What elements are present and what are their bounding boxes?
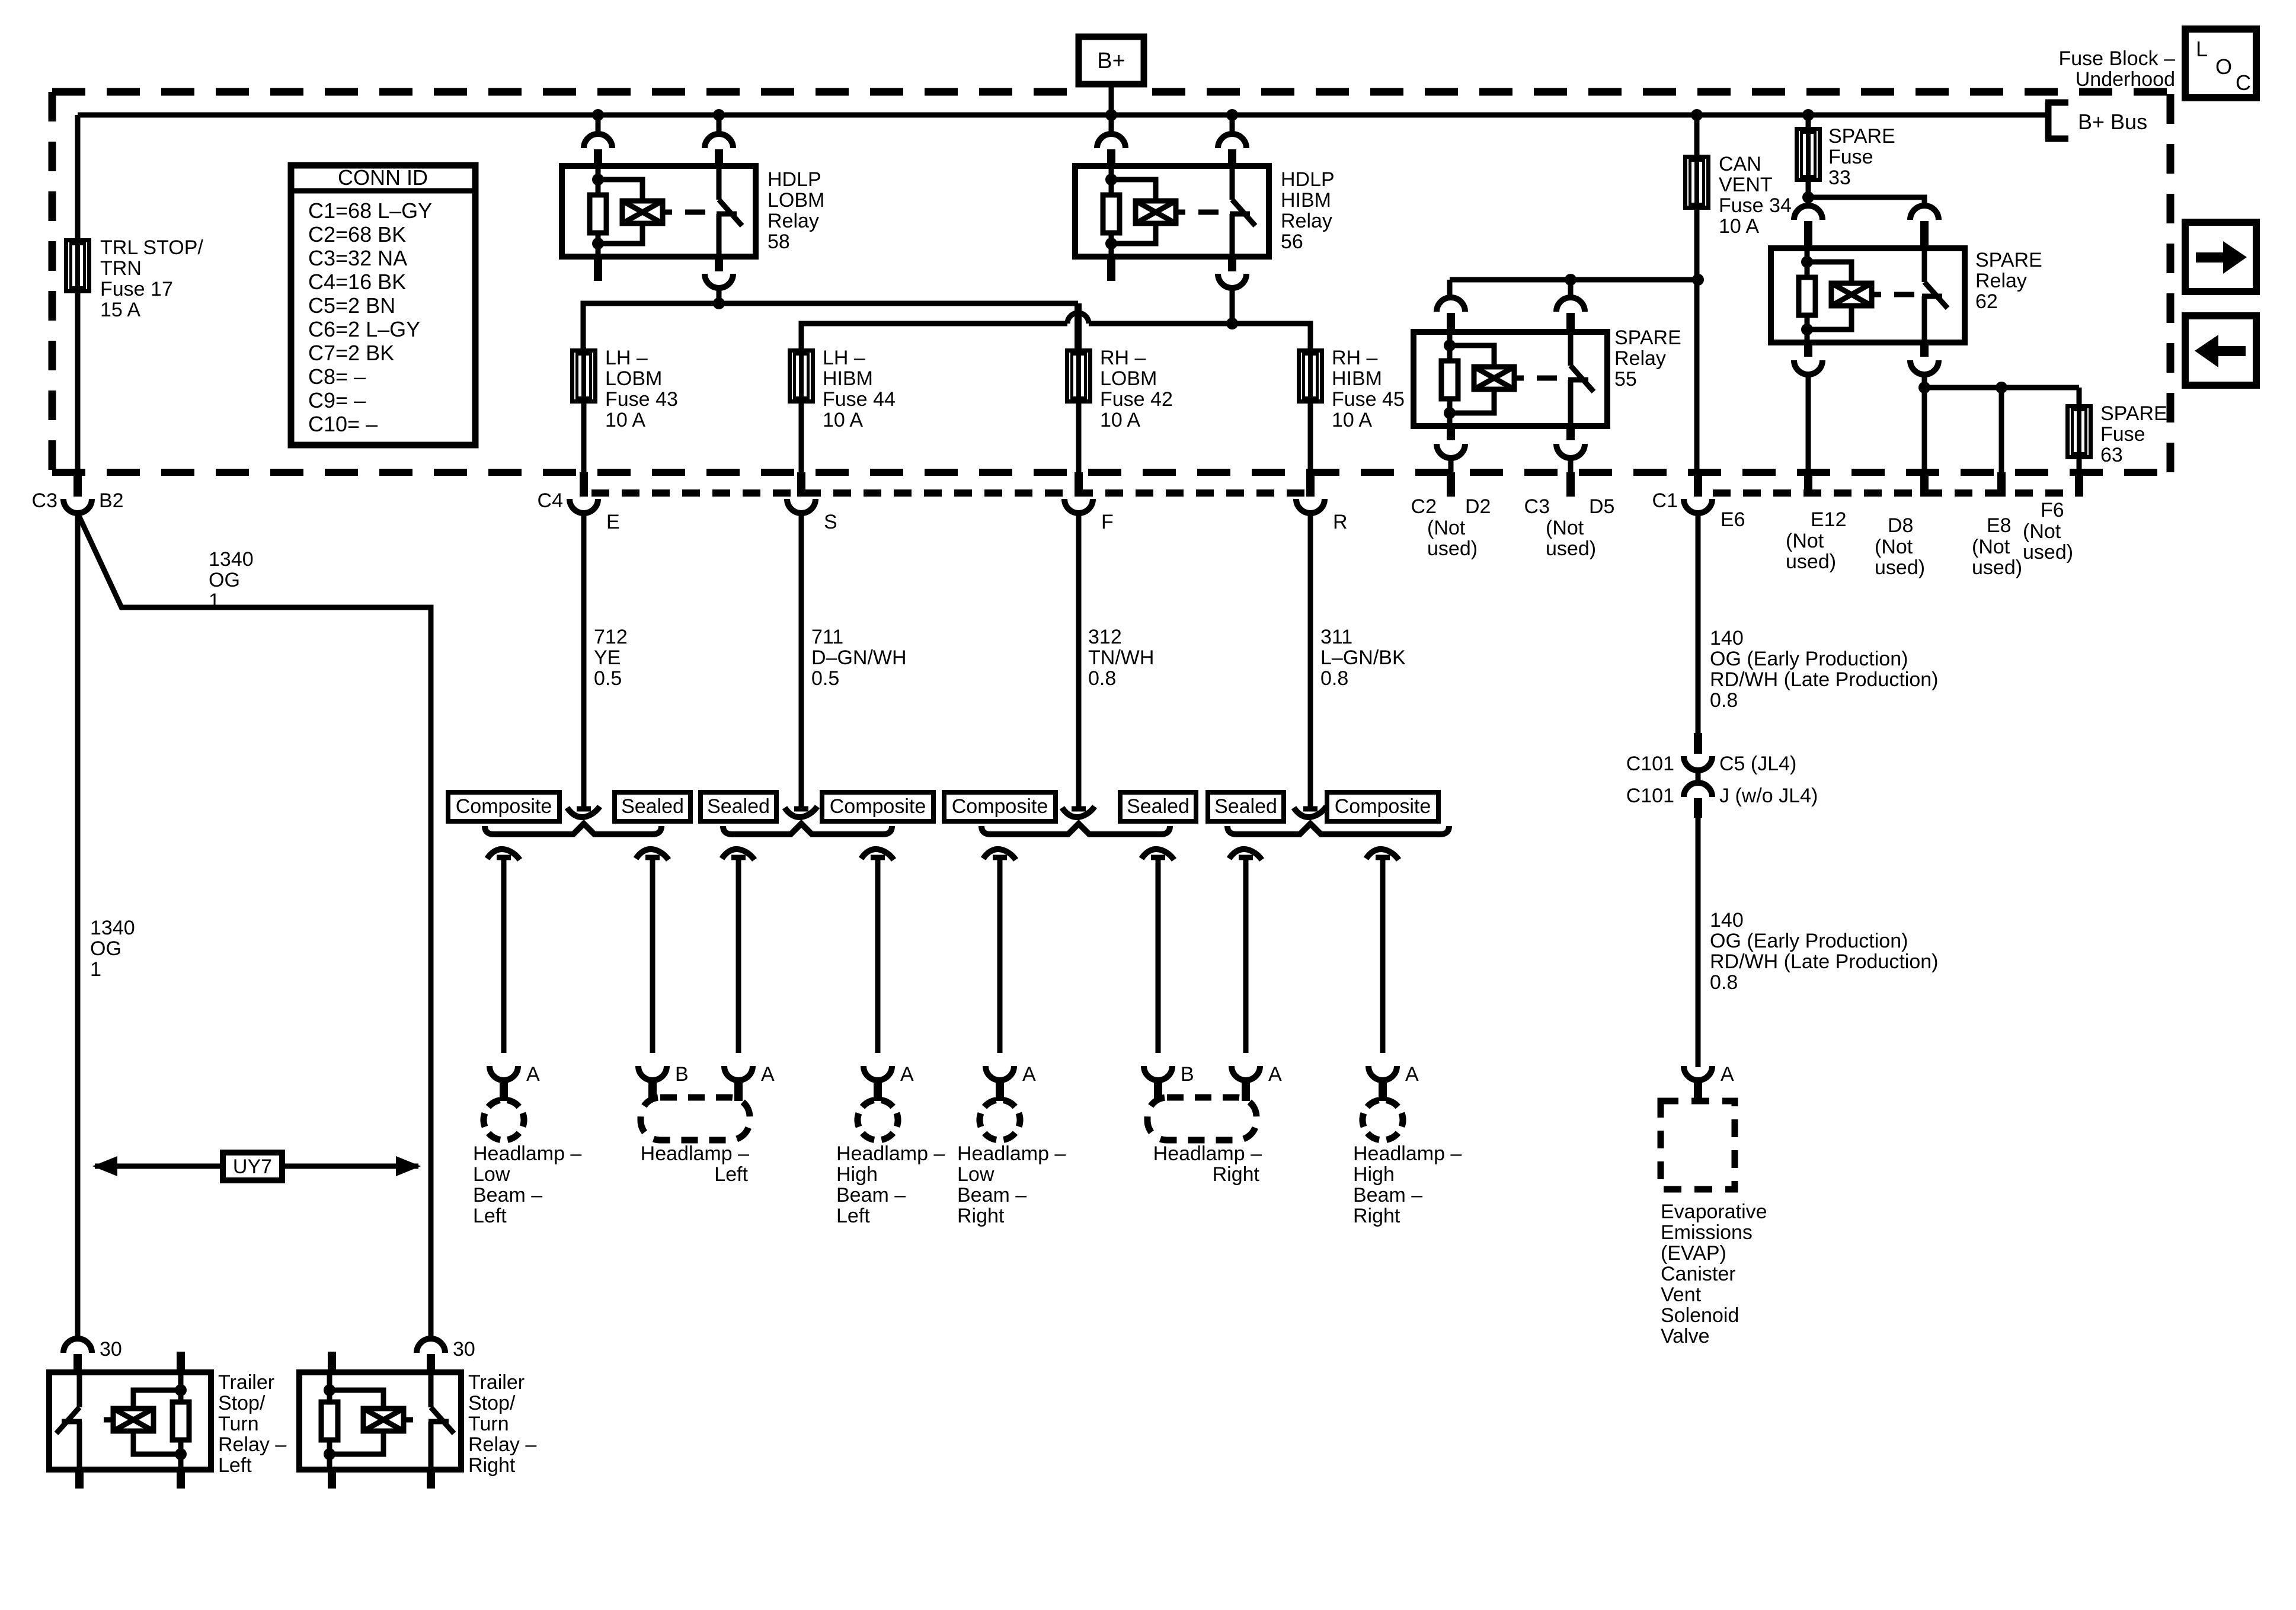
label EVAP pin A: [1721, 1063, 1734, 1086]
svg-text:Sealed: Sealed: [1127, 795, 1189, 818]
svg-text:0.8: 0.8: [1710, 971, 1738, 994]
sealed headlamp (dashed capsule) @1173: [641, 1097, 750, 1140]
label box Composite @1481: [822, 792, 933, 821]
wire LH-HIBM Fuse 44 to border: [799, 404, 804, 473]
svg-text:Relay: Relay: [1614, 347, 1666, 370]
svg-text:D8: D8: [1888, 514, 1913, 537]
svg-text:D5: D5: [1589, 495, 1614, 518]
svg-text:C4=16 BK: C4=16 BK: [308, 270, 406, 294]
label D8: [1888, 514, 1913, 537]
wire hop over low-beam drop: [1067, 313, 1089, 324]
svg-text:C6=2 L–GY: C6=2 L–GY: [308, 317, 420, 341]
connector C101 upper (C5): [1684, 733, 1712, 770]
svg-text:Composite: Composite: [830, 795, 926, 818]
svg-text:D2: D2: [1465, 495, 1491, 518]
node bus/relay58 pin86: [592, 109, 604, 121]
relay62 switch pin connector: [1910, 206, 1939, 248]
wire fuse33 to relay62 coil: [1806, 197, 1811, 207]
svg-text:used): used): [1875, 556, 1925, 579]
connector E8 stub: [1997, 472, 2006, 497]
svg-text:C: C: [2236, 71, 2251, 95]
connector F6 stub: [2075, 472, 2083, 497]
svg-text:0.8: 0.8: [1088, 667, 1116, 690]
wire high-beam feed right: [1089, 324, 1310, 348]
connector row dashed line C1 (E6..F6): [1713, 489, 2080, 497]
svg-text:High: High: [1353, 1163, 1395, 1186]
svg-text:56: 56: [1281, 231, 1303, 253]
svg-text:LOBM: LOBM: [768, 189, 824, 212]
wire low-beam feed drop to fuse 42 (crosses HIBM feed): [1075, 303, 1082, 348]
connector D2 stub: [1447, 472, 1455, 497]
label C101 upper: [1626, 753, 1674, 775]
svg-text:L–GN/BK: L–GN/BK: [1320, 646, 1406, 669]
svg-text:Headlamp –: Headlamp –: [836, 1142, 945, 1165]
relay SPARE Relay 62: [1771, 248, 1965, 343]
label headlamp left: [641, 1142, 749, 1186]
svg-text:C5=2 BN: C5=2 BN: [308, 293, 395, 318]
wire circuit from E: [581, 513, 587, 809]
label headlamp low beam right: [957, 1142, 1066, 1227]
trailer relay left resistor pin stub: [177, 1352, 185, 1372]
svg-text:C2=68 BK: C2=68 BK: [308, 222, 406, 247]
svg-text:Beam –: Beam –: [957, 1184, 1027, 1206]
wire C101 inline: [1696, 770, 1701, 783]
label EVAP valve: [1661, 1201, 1767, 1347]
svg-text:F: F: [1101, 511, 1114, 533]
label RH-LOBM Fuse 42: [1100, 347, 1173, 431]
relay56 switch pin connector: [1218, 134, 1246, 166]
svg-text:Relay: Relay: [768, 210, 819, 232]
svg-text:62: 62: [1975, 290, 1998, 313]
svg-text:OG: OG: [209, 569, 240, 591]
B+ Bus terminal bracket: [2045, 103, 2147, 139]
connector 30 (left): [63, 1339, 92, 1372]
connector F stub: [1075, 472, 1083, 497]
connector B @1954: [1144, 1066, 1172, 1101]
wire D8 down: [1922, 388, 1927, 473]
lamp wire pigtail @1954: [1141, 849, 1174, 860]
svg-text:LOBM: LOBM: [605, 367, 662, 390]
label D2 not used: [1427, 517, 1478, 560]
relay HDLP HIBM Relay 56: [1075, 166, 1269, 257]
node relay56 output: [1226, 318, 1238, 329]
node bus/B+/relay56: [1105, 109, 1117, 121]
wire bus to relay56 switch pin: [1230, 115, 1235, 135]
svg-text:0.5: 0.5: [811, 667, 839, 690]
svg-text:E12: E12: [1811, 508, 1847, 531]
wire B+ to bus: [1109, 84, 1114, 115]
label E8 not used: [1972, 536, 2022, 579]
relay Trailer Stop/Turn Relay - Left: [49, 1372, 211, 1470]
headlamp bulb (dashed circle) @1687: [974, 1094, 1025, 1145]
label wire 1340 OG 1 (lower): [90, 917, 135, 981]
svg-text:C10= –: C10= –: [308, 412, 378, 436]
headlamp bulb (dashed circle) @1481: [852, 1094, 903, 1145]
wire bus to CAN VENT fuse: [1694, 115, 1700, 155]
label relay 62: [1975, 249, 2042, 313]
svg-text:used): used): [1427, 537, 1478, 560]
wire high-beam feed left: [801, 324, 1067, 348]
sealed headlamp (dashed capsule) @2028: [1147, 1097, 1256, 1140]
relay58 switch pin connector: [705, 134, 733, 166]
svg-text:Fuse: Fuse: [2100, 423, 2145, 446]
svg-text:J (w/o JL4): J (w/o JL4): [1719, 785, 1818, 807]
trailer relay right bottom stubs: [328, 1470, 435, 1489]
wire E6 down: [1696, 513, 1701, 735]
svg-text:C101: C101: [1626, 785, 1674, 807]
node relay55 switch feed: [1565, 274, 1576, 286]
label D5 not used: [1546, 517, 1596, 560]
fuse SPARE Fuse 63: [2068, 403, 2091, 460]
lamp wire @1101: [650, 856, 655, 1053]
svg-text:RD/WH (Late Production): RD/WH (Late Production): [1710, 668, 1938, 691]
label headlamp high beam left: [836, 1142, 945, 1227]
svg-text:30: 30: [100, 1338, 122, 1361]
label headlamp high beam right: [1353, 1142, 1462, 1227]
svg-text:1340: 1340: [209, 548, 254, 571]
label LH-HIBM Fuse 44: [823, 347, 896, 431]
fuse LH-HIBM Fuse 44: [790, 347, 813, 405]
label box Composite @1687: [944, 792, 1056, 821]
svg-text:TRN: TRN: [100, 257, 142, 280]
svg-text:58: 58: [768, 231, 790, 253]
lamp wire pigtail @1101: [636, 849, 669, 860]
wire relay55 coil output to D2: [1448, 458, 1454, 473]
svg-text:E6: E6: [1721, 508, 1745, 531]
svg-text:O: O: [2215, 55, 2232, 79]
svg-text:used): used): [1786, 550, 1836, 573]
relay55 coil output connector: [1437, 426, 1465, 458]
svg-text:Underhood: Underhood: [2076, 68, 2175, 91]
svg-text:R: R: [1333, 511, 1348, 533]
lamp wire @2102: [1243, 856, 1249, 1053]
fuse block dashed border (right): [2167, 92, 2175, 472]
svg-text:Left: Left: [714, 1163, 748, 1186]
label pin A @2102: [1268, 1063, 1282, 1086]
wire fuse 17 to border: [75, 292, 81, 473]
svg-text:SPARE: SPARE: [1614, 327, 1681, 349]
connector C3/B2 socket: [63, 499, 92, 513]
connector A @2333: [1368, 1066, 1397, 1101]
fuse block dashed border (left): [49, 92, 56, 472]
connector B @1101: [638, 1066, 667, 1101]
relay62 coil pin connector: [1794, 206, 1822, 248]
svg-text:Headlamp –: Headlamp –: [1153, 1142, 1262, 1165]
label pin A @850: [526, 1063, 540, 1086]
lamp wire @1954: [1156, 856, 1161, 1053]
svg-text:SPARE: SPARE: [2100, 402, 2167, 425]
svg-text:HDLP: HDLP: [1281, 168, 1335, 191]
svg-text:140: 140: [1710, 909, 1744, 932]
connector S socket: [787, 499, 816, 513]
svg-text:Left: Left: [218, 1454, 252, 1477]
node bus/SPARE fuse 33: [1802, 109, 1814, 121]
svg-text:1: 1: [90, 958, 101, 981]
svg-text:LH –: LH –: [823, 347, 865, 369]
svg-text:Fuse: Fuse: [1828, 146, 1873, 168]
svg-text:Turn: Turn: [468, 1413, 509, 1435]
label wire 711: [811, 626, 907, 690]
svg-text:Vent: Vent: [1661, 1283, 1702, 1306]
wire relay56 output to junction: [1230, 288, 1235, 326]
wire fuse 63 to F6: [2077, 459, 2082, 473]
node bus/relay56 pin30: [1226, 109, 1238, 121]
B+ battery feed box: [1079, 37, 1144, 84]
svg-text:Right: Right: [468, 1454, 516, 1477]
relay58 coil pin connector: [584, 134, 612, 166]
wire relay55 switch output to D5: [1568, 458, 1574, 473]
svg-text:SPARE: SPARE: [1828, 125, 1895, 148]
svg-text:C4: C4: [538, 489, 563, 512]
svg-text:C3: C3: [1524, 495, 1550, 518]
connector C101 lower (J): [1684, 783, 1712, 818]
brace under 1352: [723, 824, 892, 834]
svg-text:10 A: 10 A: [1332, 409, 1372, 431]
node bus/relay58 pin30: [713, 109, 725, 121]
svg-text:A: A: [1405, 1063, 1419, 1086]
wire C3/B2 branch diagonal: [78, 513, 431, 1339]
svg-text:Fuse 45: Fuse 45: [1332, 388, 1405, 411]
label C3 (row): [1524, 495, 1550, 518]
svg-text:Sealed: Sealed: [621, 795, 684, 818]
svg-text:712: 712: [594, 626, 628, 648]
relay58 coil output stub: [594, 257, 602, 281]
svg-text:RD/WH (Late Production): RD/WH (Late Production): [1710, 950, 1938, 973]
svg-text:711: 711: [811, 626, 843, 648]
relay62 coil output connector: [1794, 343, 1822, 375]
B+ bus wire: [78, 113, 2048, 118]
svg-text:L: L: [2196, 37, 2208, 61]
svg-text:1340: 1340: [90, 917, 135, 939]
lamp wire pigtail @1481: [861, 849, 894, 860]
fuse CAN VENT Fuse 34: [1686, 153, 1709, 211]
lamp wire pigtail @1246: [722, 849, 754, 860]
node CAN VENT/relay55 feed: [1692, 274, 1704, 286]
wire bus to relay58 switch pin: [717, 115, 722, 135]
label relay 56: [1281, 168, 1335, 253]
label E8: [1987, 514, 2012, 537]
relay HDLP LOBM Relay 58: [562, 166, 756, 257]
connector A @850: [490, 1066, 518, 1101]
svg-text:Stop/: Stop/: [468, 1392, 516, 1414]
svg-text:LOBM: LOBM: [1100, 367, 1157, 390]
svg-text:Emissions: Emissions: [1661, 1221, 1753, 1244]
label C5 (JL4): [1719, 753, 1796, 775]
svg-text:C2: C2: [1411, 495, 1437, 518]
svg-text:B: B: [1181, 1063, 1194, 1086]
svg-text:Relay: Relay: [1975, 270, 2027, 292]
svg-text:63: 63: [2100, 444, 2123, 466]
svg-text:Fuse Block –: Fuse Block –: [2058, 47, 2175, 70]
svg-text:LH –: LH –: [605, 347, 648, 369]
node relay58 output: [713, 297, 725, 309]
wire low-beam feed: [583, 303, 1078, 348]
svg-text:RH –: RH –: [1100, 347, 1146, 369]
label E12: [1811, 508, 1847, 531]
relay58 switch output connector: [705, 257, 733, 288]
svg-text:(Not: (Not: [1875, 536, 1913, 558]
svg-text:HIBM: HIBM: [823, 367, 873, 390]
connector D8 stub: [1920, 472, 1929, 497]
label D5: [1589, 495, 1614, 518]
svg-text:Relay –: Relay –: [468, 1433, 536, 1456]
svg-text:Composite: Composite: [1335, 795, 1431, 818]
label C1: [1652, 489, 1678, 512]
wire spare distribution: [1924, 385, 2079, 391]
svg-text:used): used): [2023, 541, 2073, 564]
connector A @2102: [1232, 1066, 1260, 1101]
connector 30 (right): [417, 1339, 445, 1372]
label RH-HIBM Fuse 45: [1332, 347, 1405, 431]
svg-text:Composite: Composite: [952, 795, 1048, 818]
svg-text:B2: B2: [99, 489, 124, 512]
wire LH-LOBM Fuse 43 to border: [581, 404, 587, 473]
svg-text:10 A: 10 A: [605, 409, 645, 431]
svg-text:Beam –: Beam –: [473, 1184, 542, 1206]
svg-text:RH –: RH –: [1332, 347, 1378, 369]
lamp wire @1687: [997, 856, 1003, 1053]
lamp wire pigtail @2333: [1366, 849, 1399, 860]
svg-text:Sealed: Sealed: [707, 795, 770, 818]
label fuse 33: [1828, 125, 1895, 189]
svg-text:(Not: (Not: [1786, 530, 1824, 552]
label C3: [32, 489, 57, 512]
wire bus to fuse 17: [75, 115, 81, 238]
label connector R: [1333, 511, 1348, 533]
label trailer relay right: [468, 1371, 536, 1477]
svg-text:HIBM: HIBM: [1281, 189, 1331, 212]
connector R stub: [1306, 472, 1315, 497]
fuse RH-HIBM Fuse 45: [1299, 347, 1322, 405]
node relay62 output/D8: [1918, 382, 1930, 393]
label D8 not used: [1875, 536, 1925, 579]
brace under 985: [485, 824, 661, 834]
connector A @1246: [724, 1066, 753, 1101]
svg-text:10 A: 10 A: [1719, 215, 1759, 238]
connector EVAP A socket: [1684, 1066, 1712, 1101]
node fuse33 output: [1802, 191, 1814, 203]
label wire 140 upper: [1710, 627, 1938, 712]
svg-text:High: High: [836, 1163, 878, 1186]
label C4: [538, 489, 563, 512]
connector E stub: [580, 472, 588, 497]
fuse block dashed border (bottom): [52, 469, 2170, 476]
wire end pigtail 312: [1062, 806, 1095, 817]
svg-text:Stop/: Stop/: [218, 1392, 266, 1414]
fuse SPARE Fuse 33: [1797, 126, 1820, 183]
svg-text:HDLP: HDLP: [768, 168, 821, 191]
wire circuit from R: [1308, 513, 1313, 809]
label E12 not used: [1786, 530, 1836, 573]
wire fuse33 to relay62 switch: [1808, 197, 1924, 207]
svg-text:15 A: 15 A: [100, 299, 140, 321]
svg-text:used): used): [1972, 556, 2022, 579]
svg-text:(Not: (Not: [2023, 520, 2061, 543]
connector row dashed line C4 (E..R): [591, 489, 1307, 497]
svg-text:C9= –: C9= –: [308, 388, 366, 412]
label pin A @1687: [1022, 1063, 1036, 1086]
brace under 1820: [981, 824, 1170, 834]
wire relay62 switch output: [1922, 375, 1927, 390]
svg-text:B+ Bus: B+ Bus: [2078, 110, 2147, 134]
label box Composite @850: [448, 792, 559, 821]
connector A @1687: [986, 1066, 1014, 1101]
wire to relay55 switch pin: [1568, 280, 1574, 298]
svg-text:C7=2 BK: C7=2 BK: [308, 341, 394, 365]
connector R socket: [1296, 499, 1325, 513]
svg-text:F6: F6: [2041, 499, 2064, 521]
label 30 (left): [100, 1338, 122, 1361]
wire fuse 33 to junction: [1806, 182, 1811, 200]
svg-text:E8: E8: [1987, 514, 2012, 537]
svg-text:Low: Low: [473, 1163, 510, 1186]
wire RH-HIBM Fuse 45 to border: [1308, 404, 1313, 473]
svg-text:B: B: [675, 1063, 689, 1086]
headlamp bulb (dashed circle) @2333: [1357, 1094, 1408, 1145]
wire relay58 output to junction: [717, 288, 722, 306]
wire bus to SPARE fuse 33: [1806, 115, 1811, 127]
svg-text:Sealed: Sealed: [1214, 795, 1277, 818]
label fuse 63: [2100, 402, 2167, 466]
label pin B @1101: [675, 1063, 689, 1086]
label box Sealed @1246: [701, 792, 776, 821]
wire relay62 coil output to E12: [1806, 375, 1811, 473]
svg-text:10 A: 10 A: [1100, 409, 1140, 431]
relay55 coil pin connector: [1437, 297, 1465, 332]
connector E socket: [570, 499, 598, 513]
connector C1/E6 socket: [1684, 499, 1712, 513]
svg-text:E: E: [606, 511, 620, 533]
svg-text:0.5: 0.5: [594, 667, 622, 690]
wire RH-LOBM Fuse 42 to border: [1076, 404, 1082, 473]
svg-text:Headlamp –: Headlamp –: [1353, 1142, 1462, 1165]
svg-text:Fuse 43: Fuse 43: [605, 388, 678, 411]
svg-text:Headlamp –: Headlamp –: [957, 1142, 1066, 1165]
fuse TRL STOP/TRN Fuse 17: [66, 237, 89, 295]
label connector E: [606, 511, 620, 533]
svg-text:55: 55: [1614, 368, 1637, 391]
svg-text:(EVAP): (EVAP): [1661, 1242, 1726, 1265]
label relay 58: [768, 168, 824, 253]
wire C3/B2 down to trailer relay left: [75, 513, 81, 1339]
label pin A @1246: [761, 1063, 775, 1086]
CONN ID table: [291, 165, 475, 445]
svg-text:C5 (JL4): C5 (JL4): [1719, 753, 1796, 775]
relay Trailer Stop/Turn Relay - Right: [299, 1372, 461, 1470]
label wire 311: [1320, 626, 1406, 690]
svg-text:TN/WH: TN/WH: [1088, 646, 1154, 669]
svg-text:(Not: (Not: [1972, 536, 2010, 558]
svg-text:YE: YE: [594, 646, 621, 669]
label box Sealed @2102: [1208, 792, 1284, 821]
svg-text:Fuse 44: Fuse 44: [823, 388, 896, 411]
svg-text:UY7: UY7: [233, 1156, 272, 1178]
label C2: [1411, 495, 1437, 518]
svg-text:Turn: Turn: [218, 1413, 259, 1435]
lamp wire pigtail @850: [487, 849, 520, 860]
svg-text:Solenoid: Solenoid: [1661, 1304, 1739, 1327]
wire bus to relay58 coil pin: [596, 115, 601, 135]
svg-text:OG (Early Production): OG (Early Production): [1710, 648, 1908, 670]
svg-text:Canister: Canister: [1661, 1263, 1736, 1285]
label box Composite @2333: [1327, 792, 1438, 821]
svg-text:Trailer: Trailer: [468, 1371, 525, 1394]
trailer relay right resistor pin stub: [328, 1352, 336, 1372]
label 30 (right): [453, 1338, 475, 1361]
wire end pigtail 311: [1294, 806, 1326, 817]
svg-text:C3: C3: [32, 489, 57, 512]
svg-text:VENT: VENT: [1719, 174, 1773, 196]
